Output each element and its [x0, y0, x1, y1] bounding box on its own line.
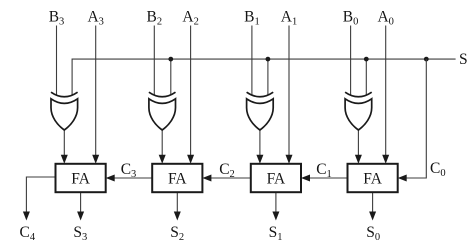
svg-text:C1: C1 [316, 161, 332, 180]
svg-text:B2: B2 [147, 9, 163, 28]
svg-text:A0: A0 [377, 9, 393, 28]
svg-text:FA: FA [267, 171, 286, 188]
svg-text:S0: S0 [366, 224, 380, 243]
svg-text:B1: B1 [244, 9, 260, 28]
svg-text:FA: FA [363, 171, 382, 188]
svg-text:S: S [459, 51, 468, 68]
svg-text:B0: B0 [343, 9, 359, 28]
svg-text:S3: S3 [73, 224, 87, 243]
svg-text:C4: C4 [20, 224, 36, 243]
svg-text:FA: FA [168, 171, 187, 188]
svg-text:C0: C0 [430, 160, 446, 179]
svg-text:S1: S1 [269, 224, 283, 243]
svg-text:A1: A1 [281, 9, 297, 28]
svg-text:S2: S2 [170, 224, 184, 243]
svg-text:A3: A3 [87, 9, 103, 28]
svg-text:C3: C3 [121, 161, 137, 180]
svg-text:A2: A2 [182, 9, 198, 28]
svg-text:FA: FA [71, 171, 90, 188]
svg-text:C2: C2 [219, 161, 235, 180]
svg-text:B3: B3 [49, 9, 65, 28]
